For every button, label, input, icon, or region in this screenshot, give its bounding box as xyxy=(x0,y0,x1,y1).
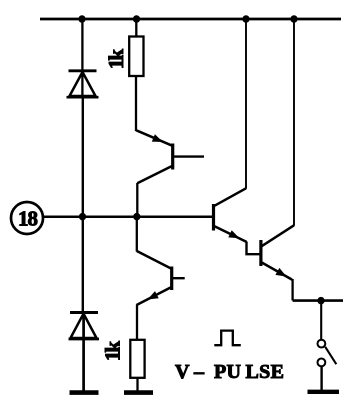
transistor Q4 emitter arrow xyxy=(275,268,286,277)
wire switch to ground xyxy=(320,366,322,391)
switch S1 bottom contact xyxy=(318,359,326,367)
wire node 18 row xyxy=(43,216,213,219)
junction dot rail / Q2 collector xyxy=(242,15,249,22)
transistor Q3 emitter lead xyxy=(137,287,172,305)
junction dot rail / R1 branch xyxy=(133,15,140,22)
wire Q4 collector up to rail xyxy=(293,19,295,226)
transistor Q3 base bar xyxy=(170,267,173,291)
wire Q3 emitter down to resistor R2 xyxy=(136,305,138,341)
junction dot output row / switch xyxy=(317,297,324,304)
wire emitter output row xyxy=(293,299,343,302)
wire R1 to Q1 emitter xyxy=(135,76,137,131)
transistor Q2 emitter arrow xyxy=(228,230,239,238)
wire Q4 emitter down xyxy=(291,279,293,301)
transistor Q4 collector lead xyxy=(261,225,294,246)
junction dot node row / left branch xyxy=(79,213,86,220)
resistor R1 body xyxy=(129,37,143,77)
wire down to switch xyxy=(320,301,322,340)
transistor Q2 base bar xyxy=(212,204,215,231)
wire R2 to ground xyxy=(136,378,138,392)
transistor Q2 collector lead xyxy=(214,188,247,206)
wire D2 to ground xyxy=(82,312,85,392)
wire rail down to diode D1 xyxy=(81,19,83,98)
node 18 terminal circle xyxy=(11,202,43,234)
transistor Q3 collector lead xyxy=(137,251,172,269)
wire Q1 collector down to node row xyxy=(136,183,138,217)
diode D2 anode line xyxy=(69,338,100,341)
transistor Q1 base bar xyxy=(171,144,174,170)
switch S1 lever xyxy=(325,347,336,364)
transistor Q4 base bar xyxy=(259,240,262,266)
transistor Q3 emitter arrow xyxy=(148,291,159,299)
diode D1 cathode bar xyxy=(69,69,97,72)
transistor Q1 base stub xyxy=(173,155,204,157)
ground bar left branch xyxy=(70,390,99,395)
wire top supply rail xyxy=(40,18,341,21)
wire Q2 collector up to rail xyxy=(245,19,247,189)
diode D2 triangle xyxy=(71,314,97,338)
pulse waveform symbol xyxy=(214,331,241,346)
transistor Q3 base stub xyxy=(172,277,185,279)
wire rail down to resistor R1 xyxy=(135,19,137,37)
wire node row down to Q3 collector xyxy=(136,217,138,252)
svg-text:1k: 1k xyxy=(101,341,125,362)
transistor Q4 emitter lead xyxy=(261,262,292,280)
diode D1 triangle xyxy=(70,72,96,96)
diode D1 anode line xyxy=(67,96,99,99)
junction dot node row / middle branch xyxy=(133,213,140,220)
svg-text:18: 18 xyxy=(18,207,38,231)
transistor Q1 emitter arrow xyxy=(152,134,163,142)
transistor Q2 emitter lead xyxy=(214,226,247,242)
junction dot rail / left diode branch xyxy=(78,15,85,22)
svg-text:V – PU LSE: V – PU LSE xyxy=(175,361,284,383)
junction dot rail / Q4 collector xyxy=(290,15,297,22)
diode D2 cathode bar xyxy=(70,311,98,314)
wire Q2 emitter step to Q4 base xyxy=(247,242,261,255)
resistor R2 body xyxy=(130,340,144,378)
switch S1 top contact xyxy=(318,340,326,348)
transistor Q1 collector lead xyxy=(137,166,172,184)
ground bar middle branch xyxy=(124,390,153,395)
transistor Q1 emitter lead xyxy=(136,130,173,146)
wire D1 to D2 (left branch through node row) xyxy=(82,96,84,313)
ground bar switch branch xyxy=(308,390,340,394)
svg-text:1k: 1k xyxy=(104,49,128,70)
